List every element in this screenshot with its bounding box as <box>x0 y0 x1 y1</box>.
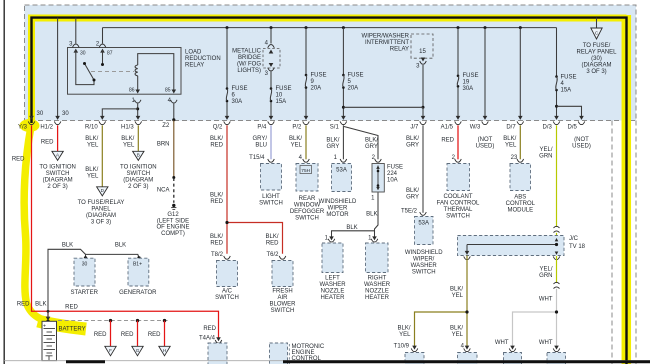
relay pin 1 <box>131 98 141 104</box>
svg-text:SWITCH: SWITCH <box>271 308 295 314</box>
svg-text:D/7: D/7 <box>506 125 516 131</box>
connector below WHT left <box>504 348 522 364</box>
svg-text:224: 224 <box>387 171 398 177</box>
yellow highlight battery feed wavy <box>24 124 40 319</box>
svg-text:85: 85 <box>165 88 171 94</box>
svg-text:FUSE: FUSE <box>348 73 364 79</box>
svg-text:30: 30 <box>62 111 69 117</box>
svg-text:RED: RED <box>41 139 54 145</box>
svg-text:53A: 53A <box>418 221 429 227</box>
svg-text:H1/2: H1/2 <box>40 125 53 131</box>
svg-text:GRN: GRN <box>539 273 552 279</box>
connector R/10 <box>85 121 106 130</box>
svg-text:10: 10 <box>276 93 283 99</box>
svg-text:FUSE: FUSE <box>561 75 577 81</box>
svg-text:WIPER/: WIPER/ <box>413 256 435 262</box>
svg-text:BLK: BLK <box>62 243 73 249</box>
svg-text:H1/3: H1/3 <box>121 125 134 131</box>
connector Q/2 <box>213 121 231 130</box>
arrow B to ignition switch <box>120 151 157 190</box>
fuse F4 column wire (D/3) <box>554 28 559 120</box>
connector H1/3 <box>121 121 142 130</box>
wire RED Y/3 to battery <box>12 125 219 338</box>
connector H1/2 <box>40 121 61 130</box>
svg-text:YEL: YEL <box>291 143 303 149</box>
svg-text:(DIAGRAM: (DIAGRAM <box>123 177 153 183</box>
node Z2 <box>162 123 170 129</box>
svg-text:T6/2: T6/2 <box>266 252 279 258</box>
svg-text:2 OF 3): 2 OF 3) <box>47 184 67 190</box>
metallic bridge column wire (P/4) <box>269 28 274 120</box>
svg-text:LIGHTS): LIGHTS) <box>237 68 261 74</box>
page bottom black band right <box>283 360 650 363</box>
arrow G <box>132 346 143 356</box>
connector T8/2 <box>211 252 230 259</box>
svg-text:MODULE: MODULE <box>507 207 533 213</box>
svg-text:(W/ FOG: (W/ FOG <box>237 62 261 68</box>
svg-text:BLK: BLK <box>35 302 46 308</box>
svg-text:RED: RED <box>17 302 30 308</box>
fuse 19 30A <box>457 73 479 92</box>
svg-text:BLK/: BLK/ <box>406 188 419 194</box>
connector T4A/4 <box>199 326 227 364</box>
arrow C to fuse/relay panel <box>576 18 617 75</box>
wiper relay pin 3 <box>416 58 426 70</box>
svg-text:YEL: YEL <box>452 332 464 338</box>
relay switch contacts <box>76 50 104 85</box>
ABS control module <box>506 159 536 213</box>
svg-text:LOAD: LOAD <box>185 50 202 56</box>
svg-text:GRY: GRY <box>406 143 419 149</box>
wire BLK/GRY J/7 <box>401 125 423 214</box>
connector D/7 <box>506 121 523 130</box>
svg-text:MOTOR: MOTOR <box>326 212 349 218</box>
svg-text:BLK/: BLK/ <box>85 167 98 173</box>
svg-text:BLU: BLU <box>255 143 267 149</box>
wire BLK/YEL R/10 to arrow D <box>85 125 102 187</box>
svg-text:OF ENGINE: OF ENGINE <box>156 225 189 231</box>
wire BLK/YEL from J/C <box>394 256 470 350</box>
wire BLK/YEL P/2 <box>289 125 306 161</box>
svg-text:BLK/: BLK/ <box>450 326 463 332</box>
svg-text:(NOT: (NOT <box>574 137 589 143</box>
fuse 9 20A <box>305 73 327 92</box>
wire W/3 column <box>483 28 488 120</box>
svg-text:FUSE: FUSE <box>387 165 403 171</box>
svg-text:H: H <box>163 348 166 353</box>
svg-text:A/C: A/C <box>222 288 233 294</box>
svg-text:TO FUSE/RELAY: TO FUSE/RELAY <box>78 200 125 206</box>
svg-text:BLK/: BLK/ <box>121 136 134 142</box>
wire H1/2 feed from hot bus <box>55 18 60 120</box>
arrow into Y/3 <box>29 116 34 120</box>
svg-text:FAN CONTROL: FAN CONTROL <box>437 200 480 206</box>
svg-text:BLK: BLK <box>115 243 126 249</box>
fuse F6 column wire (Q/2) <box>225 28 230 120</box>
svg-text:BLK/: BLK/ <box>85 136 98 142</box>
wire RED H1/2 to arrow A <box>41 125 58 151</box>
yellow highlight Y/3 connector blob <box>20 119 40 132</box>
connector S/1 <box>330 121 347 130</box>
svg-text:WIPER/WASHER: WIPER/WASHER <box>362 34 410 40</box>
svg-text:DEFOGGER: DEFOGGER <box>290 209 325 215</box>
svg-text:YEL/: YEL/ <box>539 267 552 273</box>
svg-text:SWITCH: SWITCH <box>126 171 150 177</box>
svg-text:TO IGNITION: TO IGNITION <box>120 164 157 170</box>
svg-text:(NOT: (NOT <box>478 137 493 143</box>
left washer nozzle heater <box>319 239 346 301</box>
svg-text:RED: RED <box>94 332 107 338</box>
svg-text:YEL: YEL <box>123 143 135 149</box>
generator <box>119 258 157 296</box>
svg-text:THERMAL: THERMAL <box>444 207 473 213</box>
relay pin 3 wire <box>69 18 86 57</box>
svg-text:T15/4: T15/4 <box>249 155 265 161</box>
svg-text:SWITCH: SWITCH <box>295 215 319 221</box>
svg-text:SWITCH: SWITCH <box>446 213 470 219</box>
svg-text:D/5: D/5 <box>568 125 578 131</box>
svg-text:YEL: YEL <box>505 143 517 149</box>
svg-text:BLK/: BLK/ <box>365 138 378 144</box>
svg-text:HEATER: HEATER <box>321 295 346 301</box>
svg-text:RIGHT: RIGHT <box>368 276 387 282</box>
svg-text:WHT: WHT <box>539 340 553 346</box>
svg-text:BLK/: BLK/ <box>326 138 339 144</box>
svg-text:A1/5: A1/5 <box>441 125 454 131</box>
svg-text:15A: 15A <box>276 99 287 105</box>
svg-text:NOZZLE: NOZZLE <box>365 289 389 295</box>
svg-text:YEL: YEL <box>87 143 99 149</box>
wire RED to arrow H <box>148 321 165 347</box>
svg-text:B: B <box>137 152 140 157</box>
svg-text:CONTROL: CONTROL <box>506 201 536 207</box>
svg-text:GRY: GRY <box>326 144 339 150</box>
svg-text:WINDSHIELD: WINDSHIELD <box>319 199 357 205</box>
wire BLK battery to starter/generator <box>35 243 141 318</box>
right washer nozzle heater <box>364 239 391 301</box>
svg-text:RED: RED <box>148 332 161 338</box>
svg-text:19: 19 <box>463 80 470 86</box>
connector T10/9 <box>405 348 424 364</box>
node bus from relay 87 <box>103 27 557 29</box>
wire red battery tap <box>46 310 51 321</box>
wire D/3 to D/5 branch <box>557 106 584 120</box>
fresh air blower switch <box>269 261 296 314</box>
svg-text:BLK/: BLK/ <box>210 234 223 240</box>
junction connector J/C TV 18 <box>458 236 586 260</box>
connector D/5 <box>568 121 591 149</box>
svg-text:15A: 15A <box>561 88 572 94</box>
svg-text:RELAY: RELAY <box>390 47 409 53</box>
svg-text:J/7: J/7 <box>410 125 419 131</box>
svg-text:YEL: YEL <box>87 174 99 180</box>
svg-text:BRN: BRN <box>157 142 170 148</box>
svg-text:BLK/: BLK/ <box>406 136 419 142</box>
ground G12 <box>156 204 189 237</box>
svg-text:BLK/: BLK/ <box>450 287 463 293</box>
LOAD REDUCTION RELAY <box>68 48 221 95</box>
wiper/washer intermittent relay <box>362 34 433 59</box>
svg-text:87: 87 <box>107 51 113 57</box>
svg-text:RED: RED <box>210 143 223 149</box>
svg-text:D/3: D/3 <box>543 125 553 131</box>
svg-text:T8/2: T8/2 <box>211 252 224 258</box>
svg-text:BLK/: BLK/ <box>265 234 278 240</box>
svg-text:BLK/: BLK/ <box>503 136 516 142</box>
coolant fan control thermal switch <box>437 159 480 219</box>
wire WHT right branch <box>495 289 559 350</box>
connector 4 <box>458 348 478 364</box>
wire BLK fuse224 to washer heaters <box>325 193 378 242</box>
svg-text:YEL: YEL <box>452 293 464 299</box>
fuse F9 column wire (P/2) <box>304 28 309 120</box>
svg-text:15: 15 <box>419 49 426 55</box>
svg-text:STARTER: STARTER <box>70 290 98 296</box>
windshield wiper motor <box>319 159 357 218</box>
battery <box>42 320 86 361</box>
wire BRN Z2 to G12 <box>157 121 175 203</box>
svg-text:SWITCH: SWITCH <box>259 200 283 206</box>
svg-text:20A: 20A <box>348 86 359 92</box>
svg-text:WASHER: WASHER <box>364 282 391 288</box>
svg-text:WINDSHIELD: WINDSHIELD <box>405 250 443 256</box>
fuse F5 column wire (S/1) <box>341 28 346 120</box>
power distribution shaded box <box>25 5 637 121</box>
svg-text:GENERATOR: GENERATOR <box>119 290 157 296</box>
svg-text:SWITCH: SWITCH <box>412 269 436 275</box>
svg-text:WHT: WHT <box>495 340 509 346</box>
svg-text:WASHER: WASHER <box>319 282 346 288</box>
svg-text:REDUCTION: REDUCTION <box>185 56 221 62</box>
fuse 5 20A <box>342 73 363 92</box>
wire wiper relay to node <box>422 65 425 109</box>
svg-text:T4A/4: T4A/4 <box>199 335 216 341</box>
fuse F19 column wire (A1/5) <box>456 28 461 120</box>
connector below WHT right <box>547 348 566 364</box>
A/C switch <box>215 261 239 301</box>
connector T6/2 <box>266 252 285 259</box>
svg-text:R/10: R/10 <box>85 125 98 131</box>
svg-text:BATTERY: BATTERY <box>59 327 86 333</box>
svg-text:SWITCH: SWITCH <box>215 295 239 301</box>
svg-text:TO IGNITION: TO IGNITION <box>39 164 76 170</box>
svg-text:NOZZLE: NOZZLE <box>321 289 345 295</box>
svg-text:REAR: REAR <box>299 196 316 202</box>
svg-text:RED: RED <box>65 305 78 311</box>
rear window defogger switch <box>290 159 325 221</box>
svg-text:+: + <box>43 324 46 330</box>
svg-text:TO FUSE/: TO FUSE/ <box>583 43 611 49</box>
relay coil <box>129 54 176 94</box>
wire BLK/GRY S/1 split <box>326 125 378 161</box>
svg-text:53A: 53A <box>336 168 347 174</box>
svg-text:30: 30 <box>82 261 88 267</box>
arrow A to ignition switch <box>39 151 76 190</box>
wire relay pin1 to R/10 and H1/3 <box>100 104 140 120</box>
svg-text:BRIDGE: BRIDGE <box>238 55 261 61</box>
svg-text:BLK: BLK <box>346 225 357 231</box>
svg-text:B1+: B1+ <box>133 261 142 267</box>
svg-text:RELAY: RELAY <box>185 63 204 69</box>
svg-text:(LEFT SIDE: (LEFT SIDE <box>157 218 189 224</box>
light switch <box>259 159 283 206</box>
svg-text:86: 86 <box>129 88 135 94</box>
svg-text:RED: RED <box>203 326 216 332</box>
wire BLK/YEL H1/3 to arrow B <box>121 125 138 151</box>
svg-text:(DIAGRAM: (DIAGRAM <box>86 213 116 219</box>
svg-text:WASHER: WASHER <box>411 263 438 269</box>
svg-text:P/2: P/2 <box>292 125 302 131</box>
svg-text:Q/2: Q/2 <box>213 125 223 131</box>
fuse 4 15A <box>555 75 576 94</box>
svg-text:WHT: WHT <box>539 297 553 303</box>
wire YEL/GRN D/3 <box>539 125 559 244</box>
svg-text:S/1: S/1 <box>330 125 340 131</box>
svg-text:PANEL: PANEL <box>91 206 111 212</box>
svg-text:GRY: GRY <box>365 144 378 150</box>
svg-text:23: 23 <box>511 155 518 161</box>
fuse 224 10A <box>371 159 403 202</box>
yellow highlight main hot wire <box>32 18 627 124</box>
svg-text:WIPER: WIPER <box>328 205 348 211</box>
svg-text:RED: RED <box>210 199 223 205</box>
relay pin 2 wire <box>96 28 113 57</box>
svg-text:COMPT): COMPT) <box>161 231 185 237</box>
svg-text:T5E/2: T5E/2 <box>401 208 418 214</box>
wire RED to arrow F <box>94 321 111 347</box>
windshield wiper/washer switch <box>405 212 443 275</box>
svg-text:INTERMITTENT: INTERMITTENT <box>365 40 409 46</box>
svg-text:W/3: W/3 <box>470 125 481 131</box>
svg-text:GRY: GRY <box>406 195 419 201</box>
connector Y/3 <box>18 121 35 130</box>
svg-text:G12: G12 <box>167 212 179 218</box>
connector P/2 <box>292 121 309 130</box>
svg-text:FUSE: FUSE <box>311 73 327 79</box>
svg-text:NCA: NCA <box>157 188 170 194</box>
wire RED to arrow G <box>121 321 138 347</box>
connector D/3 <box>543 121 560 130</box>
svg-text:FRESH: FRESH <box>272 288 292 294</box>
svg-text:USED): USED) <box>572 144 591 150</box>
svg-text:3 OF 3): 3 OF 3) <box>91 219 111 225</box>
page frame left border line <box>3 0 5 364</box>
svg-text:FUSE: FUSE <box>463 73 479 79</box>
wire BLK/YEL D/7 <box>503 125 520 161</box>
dashed page border right (below box) <box>611 121 613 364</box>
motronic engine control module <box>270 343 325 364</box>
svg-text:(30): (30) <box>591 56 602 62</box>
svg-text:FUSE: FUSE <box>276 86 292 92</box>
connector W/3 <box>470 121 495 149</box>
svg-text:RED: RED <box>121 332 134 338</box>
svg-text:METALLIC: METALLIC <box>232 49 262 55</box>
wire S/1 J/7 link <box>343 107 425 120</box>
wire D/7 column <box>518 28 523 120</box>
svg-text:YEL/: YEL/ <box>539 147 552 153</box>
svg-text:30: 30 <box>80 51 86 57</box>
svg-text:P/4: P/4 <box>257 125 267 131</box>
svg-text:RED: RED <box>266 241 279 247</box>
node dots on relay-87 bus <box>226 26 522 29</box>
arrow F <box>105 346 116 356</box>
svg-text:(DIAGRAM: (DIAGRAM <box>582 63 612 69</box>
svg-text:2 OF 3): 2 OF 3) <box>128 184 148 190</box>
wire relay pin4 to Z2 <box>172 104 175 122</box>
svg-text:ABS: ABS <box>514 194 526 200</box>
connector J/7 <box>410 121 426 130</box>
svg-text:BLK/: BLK/ <box>397 326 410 332</box>
svg-text:J/C: J/C <box>569 236 579 242</box>
svg-text:BLK/: BLK/ <box>210 136 223 142</box>
relay mechanical link dashed <box>91 71 134 73</box>
svg-text:BLK/: BLK/ <box>210 193 223 199</box>
wire BLK/RED Q/2 down <box>210 125 283 254</box>
svg-text:LEFT: LEFT <box>325 276 340 282</box>
svg-text:20A: 20A <box>311 86 322 92</box>
svg-text:GRY/: GRY/ <box>252 136 267 142</box>
svg-text:COOLANT: COOLANT <box>443 194 472 200</box>
svg-text:RED: RED <box>441 138 454 144</box>
page bottom black band left <box>66 360 105 363</box>
connector A1/5 <box>441 121 462 130</box>
svg-text:YEL: YEL <box>399 332 411 338</box>
svg-text:Y/3: Y/3 <box>18 125 28 131</box>
metallic bridge <box>232 41 280 78</box>
arrow H <box>159 346 170 356</box>
fuse 6 30A <box>226 86 248 105</box>
svg-text:USED): USED) <box>476 144 495 150</box>
connector P/4 <box>257 121 274 130</box>
svg-text:30A: 30A <box>463 86 474 92</box>
wire GRY/BLU P/4 <box>249 125 271 161</box>
svg-text:RED: RED <box>210 241 223 247</box>
svg-text:3 OF 3): 3 OF 3) <box>586 69 606 75</box>
svg-text:WINDOW: WINDOW <box>294 202 321 208</box>
battery red feed bus dashed <box>58 319 169 322</box>
svg-text:FUSE: FUSE <box>232 86 248 92</box>
svg-text:10A: 10A <box>387 178 398 184</box>
svg-text:G: G <box>136 348 140 353</box>
svg-text:T10/9: T10/9 <box>394 344 410 350</box>
svg-text:HEATER: HEATER <box>365 295 390 301</box>
svg-text:GRN: GRN <box>539 154 552 160</box>
svg-text:30A: 30A <box>232 99 243 105</box>
svg-text:TV 18: TV 18 <box>569 244 586 250</box>
svg-text:SWITCH: SWITCH <box>46 171 70 177</box>
yellow highlight battery label <box>38 321 86 329</box>
svg-text:BLK: BLK <box>366 212 377 218</box>
svg-text:RELAY PANEL: RELAY PANEL <box>576 50 617 56</box>
page bottom edge line <box>4 360 650 362</box>
wire RED A1/5 <box>441 125 458 161</box>
svg-text:30: 30 <box>37 111 44 117</box>
svg-text:LIGHT: LIGHT <box>262 194 280 200</box>
svg-text:AIR: AIR <box>277 295 288 301</box>
fuse 10 15A <box>270 86 292 105</box>
svg-text:Z2: Z2 <box>162 123 170 129</box>
svg-text:RED: RED <box>12 157 25 163</box>
svg-text:(DIAGRAM: (DIAGRAM <box>43 177 73 183</box>
svg-text:F: F <box>109 348 112 353</box>
svg-text:75H: 75H <box>301 168 310 174</box>
starter <box>70 258 98 296</box>
svg-text:BLOWER: BLOWER <box>269 301 296 307</box>
svg-text:BLK/: BLK/ <box>289 136 302 142</box>
arrow D to fuse/relay panel <box>78 187 125 226</box>
relay pin 4 <box>168 98 177 104</box>
wire YEL/GRN below J/C <box>539 256 559 289</box>
